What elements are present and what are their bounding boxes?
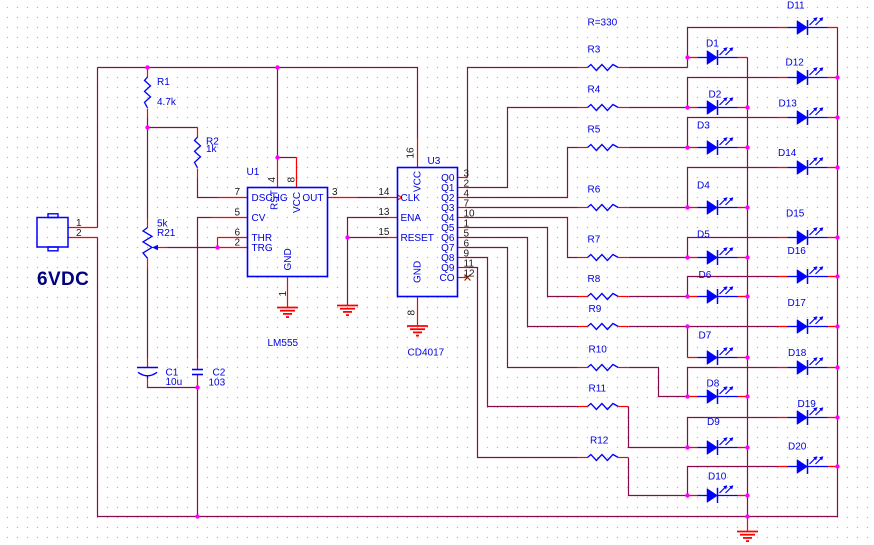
svg-text:D13: D13: [779, 99, 798, 110]
svg-text:4.7k: 4.7k: [157, 97, 177, 108]
svg-text:CV: CV: [252, 213, 266, 224]
wire VCC top rail from left bus to U3 pin16 drop: [98, 68, 418, 138]
wire D10 junction riser to D20: [688, 467, 778, 496]
resistor R3 body: [578, 67, 588, 69]
LED D10: [688, 495, 698, 497]
LED D14: [778, 167, 788, 169]
svg-text:OUT: OUT: [302, 193, 323, 204]
wire Q7 to R10: [468, 248, 578, 368]
pin U3 Q3 stub: [458, 207, 468, 209]
svg-text:VCC: VCC: [292, 192, 303, 213]
resistor R7 body: [578, 257, 588, 259]
pin C1 top stub: [147, 358, 149, 368]
pin U3.8 GND stub: [417, 297, 419, 327]
wire R4 out to D2 junction: [629, 107, 688, 109]
capacitor C1 body polarized: [137, 367, 158, 369]
svg-text:CD4017: CD4017: [408, 348, 445, 359]
wire R10 out jog to D8 junction: [629, 368, 688, 397]
wire U1 OUT to U3 CLK: [328, 197, 358, 199]
svg-text:R10: R10: [589, 345, 608, 356]
junction dots: [145, 65, 149, 69]
wire R21 wiper to THR/TRG junction: [158, 247, 168, 249]
wire R3 out to D1/D11 riser: [629, 67, 688, 69]
potentiometer R21 wiper arrow: [152, 245, 158, 250]
svg-text:D10: D10: [708, 472, 727, 483]
wire D2 junction riser to D12: [688, 78, 778, 108]
pin U1.4 RST stub: [277, 158, 279, 188]
pin U1.6 THR stub: [218, 237, 248, 239]
wire R21 bottom to C1 top: [147, 259, 149, 269]
resistor R2 body: [195, 137, 201, 168]
wire D8 junction riser to D18: [688, 368, 778, 397]
clock symbol at U3 CLK: [397, 195, 402, 201]
svg-text:D7: D7: [699, 331, 712, 342]
LED D5: [688, 257, 698, 259]
svg-text:1: 1: [278, 291, 289, 297]
LED D9: [688, 447, 698, 449]
svg-text:R21: R21: [157, 228, 176, 239]
pin U3.14 CLK stub: [388, 197, 398, 199]
wire U3 RESET to ground net: [348, 237, 388, 239]
svg-text:D19: D19: [798, 399, 817, 410]
wire D17 line dropper to D7: [687, 327, 689, 358]
svg-text:13: 13: [378, 207, 390, 218]
svg-text:6VDC: 6VDC: [37, 269, 89, 290]
ground symbol at bottom rail: [737, 531, 758, 533]
pin U3 Q2 stub: [458, 197, 468, 199]
wire U3 ENA to ground stem: [348, 218, 388, 306]
wire elbow to pin8: [278, 157, 297, 159]
pin U3 Q8 stub: [458, 257, 468, 259]
svg-text:CO: CO: [440, 273, 455, 284]
wire U1 CV to C2 top: [212, 217, 248, 219]
svg-text:8: 8: [287, 177, 298, 183]
capacitor C2 body: [192, 369, 203, 371]
wire Q4 to R7: [468, 218, 578, 258]
svg-text:R=330: R=330: [588, 18, 618, 29]
svg-text:R12: R12: [590, 436, 609, 447]
svg-text:D20: D20: [788, 442, 807, 453]
svg-text:RESET: RESET: [401, 233, 434, 244]
pin U3 CO stub with no-connect X: [458, 277, 468, 279]
wire R6 out to D4 junction: [629, 207, 688, 209]
ground symbol at U3 ENA/RESET: [337, 305, 358, 307]
svg-text:CLK: CLK: [401, 193, 421, 204]
LED D16: [778, 276, 788, 278]
LED D3: [688, 147, 698, 149]
pin C1 bottom stub: [147, 379, 149, 386]
wire D9 junction riser to D19: [688, 418, 778, 448]
svg-text:16: 16: [406, 147, 417, 159]
pin U3 Q4 stub: [458, 217, 468, 219]
wire D6 junction riser to D16: [688, 277, 778, 297]
pin U3.16 VCC stub: [417, 138, 419, 168]
LED D13: [778, 117, 788, 119]
resistor R9 body: [578, 326, 588, 328]
connector J1 6VDC body: [37, 218, 68, 248]
pin U3.13 ENA stub: [388, 217, 398, 219]
pin U1.1 GND stub: [287, 277, 289, 308]
wire U1 pin4/pin8 supply drop from rail: [277, 68, 279, 158]
svg-text:103: 103: [209, 378, 226, 389]
svg-text:D4: D4: [697, 181, 710, 192]
pin U3 Q7 stub: [458, 247, 468, 249]
wire R21 top stub: [147, 218, 149, 228]
wire Q3 to R6: [468, 207, 578, 209]
wire connector pin1 stub: [68, 227, 98, 229]
wire junction R1 bottom down to R21 top: [147, 128, 149, 218]
svg-text:D2: D2: [709, 90, 722, 101]
LED D2: [688, 107, 698, 109]
wire Q1 to R4: [468, 108, 578, 188]
svg-text:D6: D6: [699, 270, 712, 281]
wire C1 bottom to C2 bottom junction: [148, 386, 198, 388]
LED D15: [778, 237, 788, 239]
svg-text:ENA: ENA: [401, 213, 422, 224]
svg-text:R7: R7: [588, 235, 601, 246]
resistor R1 body: [145, 77, 151, 108]
svg-text:7: 7: [234, 187, 240, 198]
wire R2 bottom to U1 pin7 DSCHG: [197, 169, 199, 179]
svg-text:U3: U3: [428, 156, 441, 167]
wire branch to R2 top: [148, 127, 198, 129]
svg-text:RST: RST: [270, 190, 281, 210]
wire R12 out jog to D10 junction: [629, 458, 688, 496]
svg-text:R1: R1: [157, 77, 170, 88]
LED D12: [778, 77, 788, 79]
pin U3 Q6 stub: [458, 237, 468, 239]
svg-text:D17: D17: [788, 298, 807, 309]
pin U1.8 VCC stub: [296, 158, 298, 188]
wire Q9 to R12: [468, 268, 578, 458]
svg-text:1k: 1k: [206, 144, 218, 155]
wire left ground bus down + bottom ground rail + right cathode bus: [98, 28, 838, 517]
LED D8: [688, 396, 698, 398]
LED D20: [778, 466, 788, 468]
LED D19: [778, 417, 788, 419]
svg-text:D15: D15: [786, 209, 805, 220]
pin U3 Q9 stub: [458, 267, 468, 269]
wire THR jog down to TRG junction: [217, 238, 219, 248]
pin U3 Q0 stub: [458, 177, 468, 179]
svg-text:LM555: LM555: [268, 338, 299, 349]
ground symbol at U1 pin1: [277, 307, 298, 309]
wire R5 out to D3 junction: [629, 147, 688, 149]
wire Q5 to R8: [468, 228, 578, 297]
wire R9 out straight to D17: [629, 326, 778, 328]
svg-text:2: 2: [234, 238, 240, 249]
LED D1: [688, 57, 698, 59]
wire Q6 to R9: [468, 238, 578, 327]
svg-text:5: 5: [234, 208, 240, 219]
wire C2 bottom to ground rail: [197, 388, 199, 517]
svg-text:R8: R8: [588, 274, 601, 285]
resistor R11 body: [578, 406, 588, 408]
svg-text:8: 8: [407, 310, 418, 316]
wire D3 junction riser to D13: [688, 118, 778, 148]
LED D11: [778, 27, 788, 29]
pin C2 bottom stub: [197, 375, 199, 386]
wire connector pin2 stub: [68, 237, 98, 239]
wire Q2 to R5: [468, 148, 578, 198]
wire R1 bottom stub to junction: [147, 109, 149, 118]
pin U3 Q5 stub: [458, 227, 468, 229]
wire Q8 to R11: [468, 258, 578, 407]
resistor R6 body: [578, 207, 588, 209]
wire R1 top stub: [147, 68, 149, 78]
svg-text:R3: R3: [588, 45, 601, 56]
wire left supply bus upper (connector pin1 up to rail): [97, 68, 99, 228]
svg-text:VCC: VCC: [413, 171, 424, 192]
LED D7: [688, 357, 698, 359]
wire Q0 to R3: [468, 68, 578, 178]
resistor R10 body: [578, 367, 588, 369]
wire left cathode bus D1 down to ground rail: [747, 58, 749, 517]
wire D4 junction riser to D14: [688, 168, 778, 208]
svg-text:D9: D9: [707, 417, 720, 428]
pin C2 top stub: [197, 359, 199, 370]
resistor R8 body: [578, 296, 588, 298]
pin U3 Q1 stub: [458, 187, 468, 189]
wire D5 junction riser to D15: [688, 238, 778, 258]
svg-text:TRG: TRG: [252, 243, 273, 254]
pin U3.15 RESET stub: [388, 237, 398, 239]
pin U1.7 DSCHG stub: [218, 197, 248, 199]
svg-text:4: 4: [267, 177, 278, 183]
svg-text:D18: D18: [788, 348, 807, 359]
resistor R12 body: [578, 457, 588, 459]
svg-text:R11: R11: [589, 384, 607, 395]
potentiometer R21 body: [143, 228, 152, 259]
LED D17: [778, 326, 788, 328]
LED D4: [688, 207, 698, 209]
resistor R5 body: [578, 147, 588, 149]
svg-text:10u: 10u: [166, 377, 183, 388]
svg-text:D8: D8: [707, 379, 720, 390]
svg-text:R9: R9: [589, 304, 602, 315]
svg-text:R5: R5: [588, 125, 601, 136]
svg-text:D3: D3: [697, 121, 710, 132]
svg-text:D12: D12: [786, 58, 805, 69]
svg-text:R4: R4: [588, 85, 601, 96]
svg-text:GND: GND: [413, 261, 424, 283]
svg-text:14: 14: [378, 187, 390, 198]
svg-text:15: 15: [378, 227, 390, 238]
svg-text:U1: U1: [247, 167, 260, 178]
op-amp U3 CD4017 body: [398, 168, 458, 297]
resistor R4 body: [578, 107, 588, 109]
svg-text:D14: D14: [778, 148, 797, 159]
svg-text:3: 3: [332, 187, 338, 198]
wire R11 out jog to D9 junction: [629, 407, 688, 448]
LED D18: [778, 367, 788, 369]
ground symbol at U3 pin8: [407, 325, 428, 327]
LED D6: [688, 296, 698, 298]
svg-text:12: 12: [464, 269, 476, 280]
wire R7 out to D5 junction: [629, 257, 688, 259]
svg-text:D5: D5: [697, 230, 710, 241]
wire R8 out to D6 junction: [629, 296, 688, 298]
pin U1.2 TRG stub: [218, 247, 248, 249]
wire ground stem below bottom rail: [747, 517, 749, 532]
svg-text:2: 2: [76, 228, 82, 239]
op-amp U1 LM555 body: [248, 188, 328, 277]
svg-text:D16: D16: [788, 246, 807, 257]
svg-text:R6: R6: [588, 185, 601, 196]
svg-text:GND: GND: [283, 248, 294, 270]
svg-text:D1: D1: [706, 39, 719, 50]
svg-text:D11: D11: [787, 1, 805, 12]
